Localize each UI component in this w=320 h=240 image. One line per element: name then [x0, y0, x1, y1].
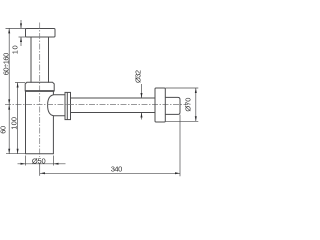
arrow 340 left [40, 172, 45, 174]
dim O32 line upper [141, 84, 143, 98]
arrow O50 right [54, 163, 59, 165]
vertical centerline [39, 23, 41, 158]
union nut [25, 82, 54, 91]
dim 340 extension left [39, 164, 41, 176]
arrow 60 bottom [8, 149, 10, 154]
dim 100 extension top [15, 82, 25, 84]
arrow 10 bottom [20, 37, 22, 42]
outlet cone [48, 95, 65, 116]
dim O70 extension top [166, 87, 199, 89]
dim O70 extension bottom [166, 120, 199, 122]
arrow O32 bottom [141, 113, 143, 118]
dim 100 line [17, 83, 19, 154]
outlet nut band inner line [66, 92, 68, 119]
svg-text:60÷160: 60÷160 [1, 53, 10, 76]
dim 10 line upper [20, 20, 22, 28]
dim O32 line lower [141, 113, 143, 120]
arrow O70 top [195, 88, 197, 93]
svg-text:340: 340 [111, 164, 123, 173]
dim 10 extension bottom [19, 36, 26, 38]
dim 60 line [8, 104, 10, 153]
arrow 100 top [17, 83, 19, 88]
svg-text:10: 10 [10, 45, 19, 54]
arrow O70 bottom [195, 116, 197, 121]
dim 340 line [40, 172, 180, 174]
svg-text:60: 60 [0, 126, 7, 134]
horizontal pipe bottom wall [71, 112, 156, 114]
dim 60-160 line [8, 28, 10, 104]
arrow 340 right [175, 172, 180, 174]
dim O70 line [195, 88, 197, 121]
outlet stub [165, 97, 180, 114]
svg-text:Ø70: Ø70 [183, 98, 192, 112]
arrow O50 left [21, 163, 26, 165]
wall flange [155, 88, 165, 122]
outlet nut band [65, 92, 71, 119]
svg-text:100: 100 [10, 117, 19, 130]
arrow 100 bottom [17, 149, 19, 154]
tailpipe wall right [48, 37, 50, 83]
trap body [26, 91, 54, 154]
dim O50 line [18, 163, 66, 165]
tailpipe wall left [30, 37, 32, 83]
arrow 60-160 bottom [8, 99, 10, 104]
arrow 60-160 top [8, 28, 10, 33]
arrow O32 top [141, 93, 143, 98]
dim O50 extension left [25, 156, 27, 166]
horizontal centerline [5, 103, 188, 105]
arrow 10 top [20, 23, 22, 28]
horizontal pipe top wall [71, 97, 156, 99]
arrow 60 top [8, 105, 10, 110]
top flange [26, 29, 56, 38]
dim O50 extension right [53, 156, 55, 166]
svg-text:Ø32: Ø32 [134, 70, 143, 83]
dim 10 extension top [6, 27, 26, 29]
dim 340 extension right [179, 115, 181, 177]
dim bottom extension [6, 153, 26, 155]
dim 10 line lower [20, 37, 22, 46]
svg-text:Ø50: Ø50 [32, 156, 46, 165]
union nut bottom edge [25, 90, 54, 92]
